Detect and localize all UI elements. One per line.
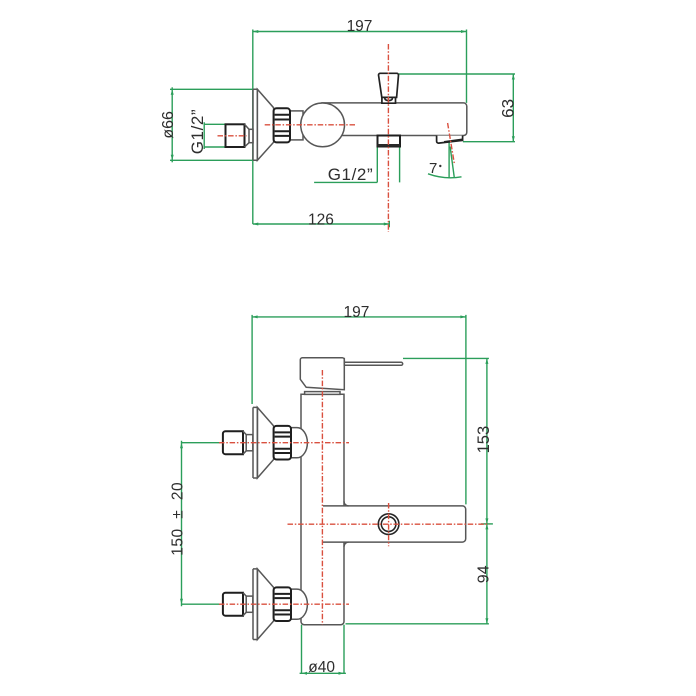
dimension Ø66: arrowheads (171, 89, 174, 160)
diverter boss inner circle (381, 517, 396, 532)
dimension 153/94: top extension (403, 357, 489, 359)
wall union centerline (top view) (218, 135, 247, 137)
svg-text:G1/2”: G1/2” (328, 165, 374, 184)
dimension 150±20: arms (182, 443, 221, 605)
dimension 126: arrowheads (253, 223, 389, 226)
dimension Ø66: extension arms (170, 89, 253, 160)
lower union taper (243, 593, 246, 616)
dimension 126: dimension line with end tick (253, 221, 389, 227)
dimension 150±20: dimension line (181, 441, 183, 607)
upper union centerline (219, 442, 349, 444)
lower hex nut (274, 587, 291, 621)
dimension Ø66: dimension line (171, 87, 173, 162)
dimension 153/94: bottom extension (346, 623, 489, 625)
svg-text:7: 7 (429, 160, 437, 177)
hex nut (top view) (274, 108, 290, 142)
escutcheon flange plate (top view) (253, 89, 257, 160)
G1/2 thread zone bracket (wall union, top view) (204, 122, 225, 149)
upper dome cap (291, 428, 307, 458)
lower wall union: escutcheon cone (257, 569, 273, 640)
lower escutcheon plate (253, 569, 257, 640)
lower union cylinder (246, 596, 253, 612)
dimension 197 top: extension line left (252, 30, 254, 225)
svg-text:ø40: ø40 (308, 659, 335, 676)
upper union taper (243, 431, 246, 454)
handle step line (343, 358, 345, 366)
upper union block (223, 431, 243, 454)
diverter boss outer circle (378, 514, 399, 535)
svg-text:197: 197 (343, 304, 369, 321)
faucet body bar (top view) (322, 103, 467, 136)
upper hex nut flats (275, 432, 290, 453)
dimension 63: dimension line (512, 74, 514, 142)
upper union cylinder (246, 435, 253, 451)
dimension Ø40: extension lines (302, 625, 345, 674)
upper escutcheon plate (253, 407, 257, 478)
diverter stem washer (385, 97, 392, 100)
svg-text:197: 197 (347, 18, 373, 35)
diverter knob (379, 73, 399, 97)
7 degree reference vertical line (448, 137, 450, 179)
dimension 197 bottom: extension left (251, 315, 253, 404)
svg-text:94: 94 (476, 565, 493, 583)
dimension 63: extension top (399, 73, 515, 75)
dimension 197 top: arrowheads (253, 30, 467, 33)
dimension 63: extension bottom (463, 141, 515, 143)
cartridge collar (305, 392, 340, 395)
aerator tilted centerline (448, 123, 455, 163)
svg-text:63: 63 (499, 99, 518, 118)
dimension 197 bottom: arrowheads (252, 315, 466, 318)
body vertical centerline (321, 370, 323, 625)
shower outlet (top view) (378, 136, 401, 147)
svg-text:126: 126 (308, 211, 334, 228)
dimension 150±20: arrowheads (180, 443, 183, 605)
7 degree arc (428, 174, 462, 178)
G1/2 bracket at shower outlet (314, 147, 400, 183)
handle lever (344, 362, 402, 365)
7 degree tilted line (450, 147, 454, 178)
dimension 153/94: arrowheads (485, 358, 488, 623)
faucet body (front view) (301, 394, 344, 625)
dimension Ø40: dimension line (300, 672, 346, 674)
svg-text:ø66: ø66 (160, 111, 177, 139)
lower union block (223, 593, 243, 616)
svg-text:153: 153 (475, 426, 493, 454)
handle cap (300, 358, 344, 390)
dimension 63: arrowheads (512, 74, 515, 142)
dimension 197 top: extension line right (466, 30, 468, 103)
hex nut flats (275, 115, 289, 136)
spout horizontal centerline (288, 523, 490, 525)
tub spout (front view) (323, 506, 466, 542)
aerator inner line (444, 139, 462, 142)
dimension Ø40: arrowheads (302, 672, 345, 675)
svg-text:150 ± 20: 150 ± 20 (169, 482, 186, 556)
dimension 197 bottom: extension right (465, 315, 467, 505)
connection cylinder to body (290, 111, 303, 140)
lower dome cap (291, 589, 307, 619)
upper wall union: escutcheon cone (257, 407, 273, 478)
lower union centerline (219, 603, 349, 605)
svg-text:G1/2”: G1/2” (188, 109, 207, 155)
main axis centerline (top view) (265, 124, 355, 126)
dimension 153/94: middle tick at spout axis (481, 523, 493, 525)
wall union small cylinder (249, 129, 253, 142)
diverter stem (382, 97, 396, 103)
wall union taper (245, 124, 250, 147)
spout aerator (7 deg face) (437, 136, 463, 144)
spout-body fillets (344, 501, 349, 546)
dimension 197 bottom: dimension line (252, 316, 466, 318)
diverter/outlet vertical centerline (387, 44, 389, 232)
lower hex nut flats (275, 594, 290, 615)
escutcheon cone (top view) (257, 89, 273, 160)
diverter boss vertical tick (388, 503, 390, 546)
wall union block (top view) (226, 124, 245, 147)
shower outlet thread band (378, 144, 401, 147)
ball joint (301, 103, 345, 147)
dimension 153/94: dimension line (486, 358, 488, 623)
dimension 197 top: dimension line (253, 31, 467, 33)
upper hex nut (274, 426, 291, 460)
